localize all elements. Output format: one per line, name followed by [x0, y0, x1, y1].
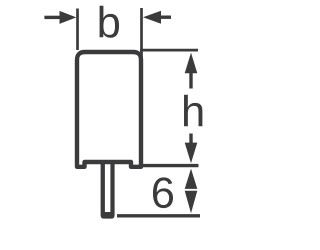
h dimension: top reference line	[140, 49, 198, 52]
label b	[99, 6, 119, 38]
b dimension: right arrow (points left)	[161, 16, 171, 19]
h dimension: up arrow	[185, 53, 198, 74]
label 6	[153, 177, 173, 208]
6 dimension: down arrow	[185, 191, 198, 214]
b dimension: left arrow (points right)	[44, 16, 60, 19]
label h	[184, 95, 202, 127]
h dimension: down arrow	[189, 134, 192, 145]
b dimension: left extension line	[76, 9, 79, 51]
6 dimension: bottom reference line	[117, 214, 200, 217]
6 dimension: up arrow	[185, 169, 198, 189]
lead (terminal pin)	[101, 160, 115, 219]
b dimension: right extension line	[140, 8, 143, 62]
h dimension: bottom reference line	[143, 164, 199, 167]
capacitor body outline	[77, 52, 141, 167]
